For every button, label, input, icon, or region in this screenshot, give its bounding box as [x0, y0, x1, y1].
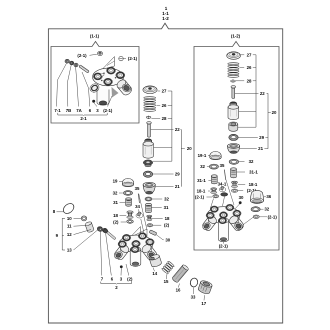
label 32 center	[152, 198, 162, 200]
svg-text:16: 16	[176, 287, 181, 292]
svg-text:13: 13	[67, 248, 72, 253]
bracket A-center	[171, 91, 173, 161]
part 10 ring	[81, 216, 86, 221]
box (1-2) with pointer peak	[194, 42, 279, 251]
label 21 center	[156, 186, 174, 188]
svg-text:20: 20	[187, 146, 192, 151]
spring 26	[144, 97, 156, 99]
svg-text:31: 31	[164, 205, 169, 210]
label 28R	[236, 80, 244, 82]
svg-text:27: 27	[247, 52, 252, 57]
ring 32Lb	[209, 164, 218, 169]
svg-text:19: 19	[113, 179, 118, 184]
svg-text:31: 31	[113, 200, 118, 205]
seat ring 22	[143, 160, 152, 165]
label (2-1) top-right in box1	[123, 58, 126, 60]
clip 34c	[136, 213, 143, 218]
label 30 center	[156, 235, 164, 240]
pin 6	[79, 65, 89, 73]
bolt 18-1Ra	[232, 181, 238, 183]
svg-text:35: 35	[220, 163, 225, 168]
svg-text:26: 26	[162, 103, 167, 108]
nut 21R	[228, 146, 240, 153]
rod near 12	[104, 229, 116, 239]
spring 26R	[228, 63, 239, 65]
washer 7B	[70, 61, 74, 65]
leader 7B	[68, 65, 72, 107]
bolt 18-1Lb	[211, 188, 217, 190]
label 31 center	[152, 207, 162, 209]
bolt 31L	[126, 199, 132, 206]
leader 2 middle	[126, 264, 129, 276]
washer 2-1Ra	[232, 189, 238, 192]
svg-text:36: 36	[266, 194, 271, 199]
cap 19	[122, 178, 133, 186]
disc 27R	[227, 52, 241, 59]
svg-text:29: 29	[259, 135, 264, 140]
clip 28R	[231, 80, 236, 82]
washer 2c	[147, 224, 153, 227]
ring 29	[143, 171, 152, 177]
bolt 31-1Ra	[231, 169, 237, 178]
part circle-minus	[119, 56, 123, 60]
label 20 center	[181, 148, 185, 150]
ring 32c	[145, 197, 152, 201]
svg-text:(2): (2)	[113, 220, 119, 225]
svg-text:27: 27	[162, 89, 167, 94]
outer assembly box with pointer peak	[48, 23, 282, 323]
ring 33	[189, 277, 198, 287]
svg-text:(1-1): (1-1)	[90, 34, 100, 39]
svg-text:26: 26	[247, 65, 252, 70]
ring 32Ra	[229, 159, 239, 164]
ball 3 in box1	[92, 100, 95, 103]
label 20R	[268, 112, 271, 114]
wedge plates above pump	[128, 227, 141, 241]
label 32Ra	[239, 161, 245, 163]
bracket 2-1	[58, 113, 83, 115]
svg-text:21: 21	[258, 146, 263, 151]
svg-text:12: 12	[67, 232, 72, 237]
svg-text:(2-1): (2-1)	[128, 56, 138, 61]
bracket 9	[62, 218, 65, 250]
label 26R	[240, 67, 245, 69]
leader 7A	[76, 67, 79, 107]
bracket B-center	[180, 130, 182, 187]
label 18-1Ra	[238, 183, 245, 185]
bolt 31-1Lb	[211, 176, 217, 184]
part 11-12 cylinder	[85, 221, 95, 233]
svg-text:28: 28	[247, 78, 252, 83]
svg-text:10: 10	[67, 216, 72, 221]
svg-text:17: 17	[201, 301, 206, 306]
svg-text:14: 14	[152, 271, 157, 276]
labels 27 26 28 center	[158, 90, 161, 92]
nut 36R	[251, 190, 264, 203]
holder 22R	[230, 102, 237, 105]
bushing 14	[149, 254, 162, 268]
clip 28	[146, 116, 151, 118]
svg-text:(2): (2)	[164, 223, 170, 228]
label 29 center	[153, 173, 174, 175]
label 32Rc	[260, 208, 263, 210]
svg-text:(2-1): (2-1)	[268, 214, 278, 219]
svg-text:2-1: 2-1	[80, 116, 87, 121]
holder 22 body	[145, 139, 152, 142]
leader 30R into pump	[222, 204, 240, 223]
svg-text:18: 18	[165, 216, 170, 221]
ring 29R	[229, 134, 238, 140]
svg-text:34-1: 34-1	[218, 181, 227, 186]
pin 35c	[138, 194, 139, 204]
washer 2-1Rc	[253, 215, 259, 219]
pin 35R	[224, 170, 226, 180]
label 18 center	[151, 217, 163, 219]
svg-text:19-1: 19-1	[198, 153, 207, 158]
svg-text:7A: 7A	[76, 108, 82, 113]
leader 6 long	[106, 233, 112, 276]
cap 19-1	[210, 151, 221, 159]
svg-text:32: 32	[249, 159, 254, 164]
clip 34-1	[219, 187, 226, 192]
leader (2-1) bottom	[108, 96, 113, 107]
bolt 31c	[146, 205, 152, 213]
svg-text:(1-2): (1-2)	[231, 34, 241, 39]
svg-text:(2-1): (2-1)	[195, 194, 205, 199]
small cap part top	[98, 51, 103, 55]
valve pin 22R	[232, 88, 235, 99]
leader 6	[82, 72, 90, 107]
svg-text:20: 20	[272, 110, 277, 115]
label (2-1)Rc	[259, 216, 267, 218]
leader 7-1	[57, 63, 67, 106]
svg-text:(2-1): (2-1)	[77, 53, 87, 58]
washer 7-1	[65, 59, 69, 63]
bolt 18L	[127, 211, 133, 214]
leader 7 long	[100, 232, 102, 276]
ring 32L	[123, 191, 132, 196]
dark cap part	[221, 193, 228, 196]
svg-text:32: 32	[264, 207, 269, 212]
bracket A right	[255, 55, 257, 127]
washer 2-1Lb	[213, 195, 219, 198]
bracket B right	[267, 93, 269, 148]
svg-text:22: 22	[260, 91, 265, 96]
cup 22R	[229, 124, 238, 131]
cap 17	[197, 280, 212, 295]
washer 2L	[127, 220, 134, 224]
svg-text:32: 32	[164, 197, 169, 202]
washer 7A	[74, 63, 78, 67]
svg-text:11: 11	[67, 224, 72, 229]
nut 21	[143, 185, 155, 193]
svg-text:1-2: 1-2	[162, 16, 169, 21]
svg-text:(2-1): (2-1)	[103, 108, 113, 113]
svg-text:34: 34	[135, 204, 140, 209]
pump assembly 2	[207, 207, 240, 224]
svg-text:31-1: 31-1	[197, 178, 206, 183]
svg-text:29: 29	[175, 172, 180, 177]
ball 3b	[120, 265, 123, 268]
spring 15	[161, 261, 174, 275]
svg-text:15: 15	[164, 279, 169, 284]
label 29R	[238, 136, 257, 138]
svg-text:18-1: 18-1	[197, 188, 206, 193]
svg-text:32: 32	[113, 191, 118, 196]
svg-text:31-1: 31-1	[249, 170, 258, 175]
label 21R	[240, 148, 257, 150]
svg-text:(2-1): (2-1)	[219, 244, 229, 249]
svg-text:18-1: 18-1	[249, 182, 258, 187]
svg-text:7B: 7B	[66, 108, 72, 113]
box (1-1) with pointer peak	[51, 42, 139, 124]
svg-text:30: 30	[239, 195, 244, 200]
wedge plate	[103, 57, 115, 70]
leader stubs minicolumn	[139, 194, 147, 230]
label 27R	[241, 54, 244, 56]
svg-text:22: 22	[175, 127, 180, 132]
label (2-1) pump2 bottom	[222, 242, 224, 244]
svg-text:18: 18	[113, 213, 118, 218]
svg-text:32: 32	[200, 164, 205, 169]
ball 30R	[239, 201, 242, 204]
leader 3	[94, 103, 97, 107]
leader lines pump2 top	[211, 199, 214, 209]
ring 32Rc	[251, 207, 260, 212]
label 31-1Ra	[237, 171, 245, 173]
label (2-1)Ra	[238, 190, 243, 192]
oval 8	[61, 201, 75, 215]
screw 30c	[149, 230, 157, 236]
bracket 2	[101, 282, 116, 284]
svg-text:35: 35	[135, 186, 140, 191]
bolt 18c	[147, 215, 152, 217]
svg-text:28: 28	[162, 116, 167, 121]
svg-text:30: 30	[165, 237, 170, 242]
pump head assembly in box1	[93, 68, 124, 86]
part 13 rings	[97, 227, 102, 231]
valve pin 22	[148, 124, 151, 138]
plunger 16	[172, 264, 190, 283]
svg-text:33: 33	[191, 294, 196, 299]
svg-text:21: 21	[175, 184, 180, 189]
pump assembly main	[119, 235, 153, 252]
label (2) center	[153, 224, 161, 226]
svg-text:7-1: 7-1	[54, 108, 61, 113]
label 22 center	[172, 129, 174, 131]
disc 27	[143, 86, 157, 94]
washers 7-6 parts	[98, 227, 103, 231]
svg-text:(2): (2)	[127, 277, 133, 282]
label 22R	[256, 92, 259, 94]
